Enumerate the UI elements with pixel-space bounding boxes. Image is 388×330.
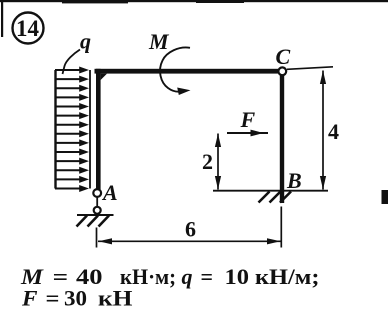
extension line at C: [287, 67, 333, 70]
svg-text:4: 4: [328, 119, 339, 144]
support A lower hinge: [94, 207, 101, 214]
support B hatching: [259, 192, 292, 203]
frame right column: [280, 71, 284, 203]
left border line: [1, 0, 3, 37]
frame left column: [96, 69, 101, 190]
moment arc arrow M: [160, 47, 190, 95]
support A link: [96, 197, 98, 207]
leader line q: [63, 50, 81, 75]
extension line below A: [96, 228, 98, 248]
svg-text:A: A: [101, 180, 118, 205]
hinge A: [93, 189, 101, 197]
svg-text:2: 2: [202, 149, 213, 174]
svg-text:q: q: [80, 29, 91, 54]
svg-text:C: C: [276, 44, 291, 69]
support A hatching: [77, 216, 110, 227]
top border line: [0, 0, 388, 2]
svg-text:14: 14: [16, 16, 40, 41]
support A ground line: [77, 214, 114, 216]
extension line below B: [280, 207, 282, 248]
force arrow F: [227, 130, 268, 137]
dimension line 2: [215, 134, 221, 190]
dimension line 6: [98, 238, 281, 244]
hinge C: [278, 67, 286, 75]
ink blob right edge: [382, 190, 388, 204]
distributed load box: [56, 70, 91, 189]
svg-text:B: B: [286, 168, 302, 193]
ground line B: [213, 190, 328, 192]
frame top beam: [95, 69, 281, 74]
svg-text:F: F: [240, 107, 256, 132]
svg-text:6: 6: [185, 217, 196, 242]
svg-text:M: M: [148, 29, 170, 54]
task number circle 14: [13, 13, 44, 44]
load arrows: [55, 67, 89, 193]
dimension line 4: [320, 71, 326, 190]
